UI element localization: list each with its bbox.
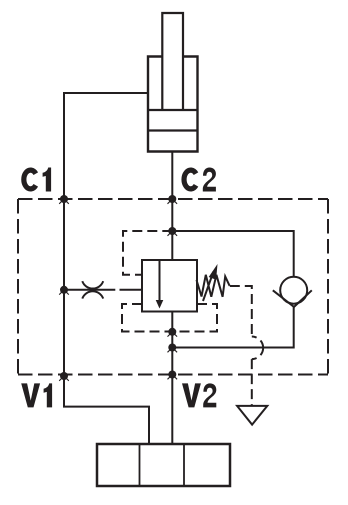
- check valve branch wire (lower): [172, 307, 293, 348]
- wire: main line from body bottom to V2 and tank: [171, 312, 173, 445]
- orifice (restrictor arcs): [82, 281, 103, 298]
- wire: cylinder bottom port to C2 node: [171, 152, 173, 200]
- node: pilot/check branch junction: [168, 227, 178, 236]
- spring (adjustable): [197, 264, 230, 301]
- V1 label: [21, 383, 52, 407]
- wire: V1 branch to tank block: [64, 376, 149, 444]
- cylinder barrel: [148, 57, 198, 152]
- check valve CV1: [273, 277, 312, 307]
- internal flow path arrow: [156, 260, 164, 309]
- node: check valve return junction: [168, 344, 178, 353]
- tank / valve block (3-cell box): [97, 444, 230, 486]
- pilot line (dashed): lower pilot loop around body bottom: [122, 304, 217, 332]
- node: lower pilot junction: [168, 328, 178, 337]
- wire: C2 main line down to valve body: [171, 199, 173, 260]
- orifice branch wire (node to valve body left port): [64, 289, 142, 291]
- node V2 junction: [168, 371, 178, 380]
- valve envelope (dashed boundary box): [18, 199, 328, 375]
- pilot line (dashed): spring chamber drain to tank: [230, 286, 252, 337]
- node: orifice branch junction: [59, 286, 69, 295]
- check valve branch wire (upper): [172, 231, 293, 277]
- drain triangle (tank symbol for pilot drain): [237, 406, 267, 425]
- C2 label: [184, 168, 216, 192]
- pilot line (dashed): upper pilot from main line to body left: [123, 231, 172, 275]
- wire: C1 line inside envelope: [63, 199, 65, 376]
- node C2 junction: [168, 195, 178, 204]
- node V1 junction: [59, 372, 69, 381]
- cylinder rod: [162, 13, 183, 110]
- adjustment arrow: [203, 272, 214, 302]
- line hop (dashed bridge over check-valve line): [252, 337, 263, 360]
- cylinder piston: [148, 110, 198, 131]
- wire: cylinder rod-side port to C1 line: [64, 93, 148, 199]
- counterbalance valve body U1: [142, 260, 197, 312]
- V2 label: [182, 383, 216, 407]
- node C1 junction: [59, 195, 69, 204]
- C1 label: [24, 168, 51, 192]
